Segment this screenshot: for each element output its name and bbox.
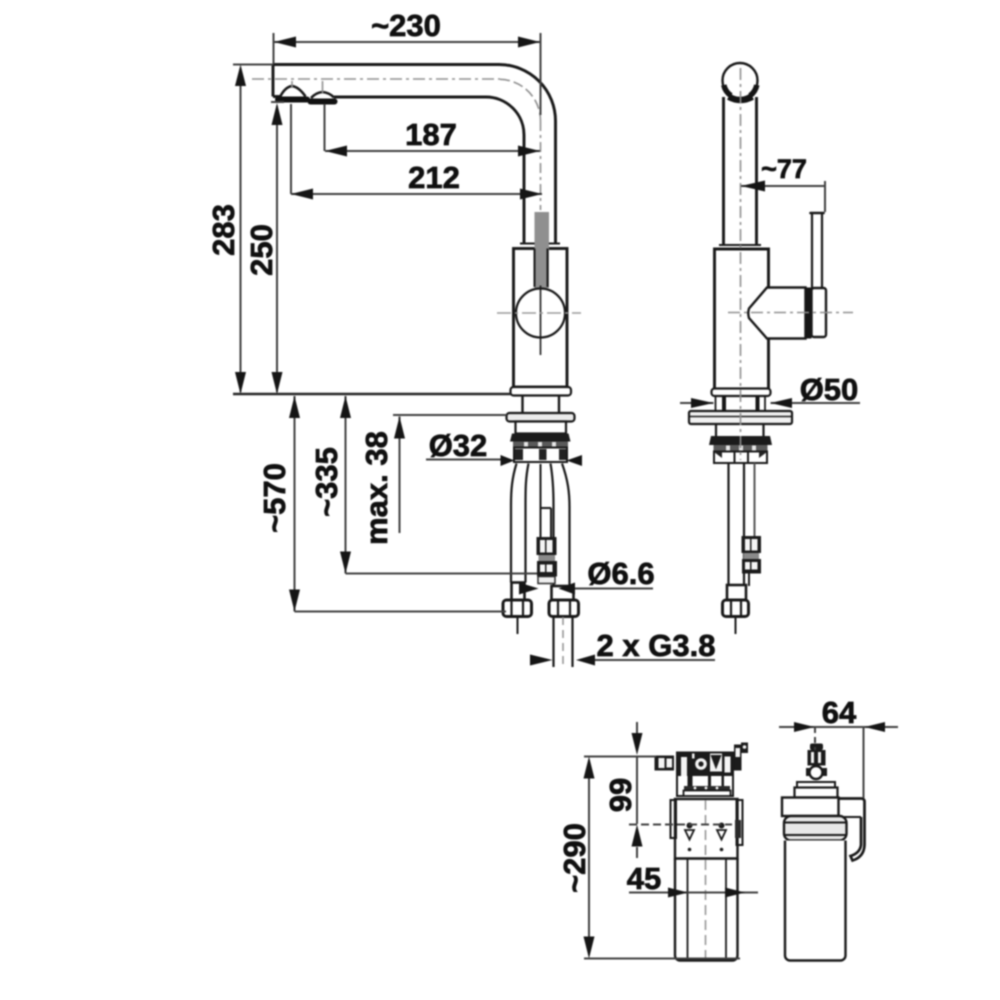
body bbox=[514, 249, 568, 388]
mounting bracket bbox=[839, 799, 865, 861]
aerator stub centerlines bbox=[291, 81, 293, 88]
svg-text:2 x G3.8: 2 x G3.8 bbox=[597, 628, 716, 663]
front hose tail bbox=[735, 617, 737, 635]
valve left bbox=[687, 823, 693, 829]
dark joint band under circle bbox=[729, 97, 753, 100]
dim 64 line bbox=[779, 726, 898, 728]
circle horizontal centerline bbox=[497, 312, 581, 314]
99 arrows bbox=[632, 733, 643, 755]
head speckled band bbox=[684, 786, 730, 791]
head right column window bbox=[725, 757, 731, 773]
svg-text:64: 64 bbox=[822, 695, 857, 730]
shank below plate bbox=[716, 424, 764, 436]
body left tab bbox=[671, 800, 677, 838]
head cell row bbox=[688, 776, 693, 786]
right hose hex nut bbox=[549, 600, 579, 617]
riser tube bbox=[724, 97, 757, 245]
lower hex collar bbox=[514, 448, 567, 463]
cartridge head step bbox=[797, 782, 835, 788]
handle hub bbox=[748, 288, 805, 339]
valve right bbox=[719, 823, 725, 829]
dim 187 line bbox=[325, 150, 540, 152]
tube/body step bbox=[719, 244, 761, 246]
body centerline bbox=[705, 800, 707, 958]
left hose tail bbox=[517, 617, 519, 635]
250 arrows bbox=[272, 103, 283, 125]
dark lower-right crescent bbox=[750, 85, 757, 96]
svg-text:Ø50: Ø50 bbox=[800, 372, 859, 407]
283 arrows bbox=[235, 65, 246, 87]
escutcheon plate bbox=[689, 411, 792, 424]
rear hose G3/8 fitting bbox=[742, 536, 762, 586]
svg-text:~290: ~290 bbox=[557, 823, 592, 893]
body inner lines bbox=[688, 859, 727, 959]
~290 arrows bbox=[584, 757, 595, 779]
cartridge head bbox=[795, 788, 838, 798]
dimension labels (faucet) bbox=[206, 8, 858, 663]
deck baseline bbox=[233, 393, 511, 395]
svg-text:Ø32: Ø32 bbox=[429, 428, 488, 463]
Ø50 arrows bbox=[691, 398, 714, 408]
filter head block bbox=[677, 753, 733, 797]
45 arrows bbox=[668, 888, 688, 898]
front view centerlines bbox=[728, 68, 853, 460]
lever shaft (grey, inside body) bbox=[535, 212, 550, 288]
base flange bbox=[712, 389, 771, 397]
head gauge circle bbox=[692, 754, 695, 759]
spout bend circle bbox=[723, 63, 758, 98]
lower hex collar bbox=[714, 452, 767, 464]
cartridge body bbox=[785, 841, 846, 961]
ball joint circle bbox=[516, 289, 565, 338]
body divider line bbox=[675, 857, 738, 859]
filter body lower bbox=[675, 859, 738, 961]
~335 arrows bbox=[340, 396, 351, 418]
aerator bump 2 bbox=[311, 92, 334, 98]
outlet elbow right bbox=[734, 745, 742, 771]
64 arrows bbox=[794, 722, 815, 732]
cartridge housing lines bbox=[535, 249, 548, 288]
washer plate bbox=[507, 413, 575, 422]
svg-text:250: 250 bbox=[244, 224, 279, 276]
spout outer top line and bend bbox=[273, 65, 556, 243]
handle end cap bbox=[812, 288, 827, 337]
right hose end fitting bbox=[552, 586, 574, 600]
Ø6.6 arrows bbox=[519, 583, 539, 595]
Ø32 arrows bbox=[501, 455, 515, 466]
front hose end fitting bbox=[727, 585, 746, 600]
front hose hex nut bbox=[723, 600, 749, 617]
dim ~570 line bbox=[294, 396, 296, 612]
svg-text:~570: ~570 bbox=[257, 463, 292, 533]
mounting studs bbox=[724, 396, 758, 411]
dim max38 line bbox=[399, 417, 401, 534]
body right tab bbox=[737, 800, 743, 845]
thread band bbox=[714, 445, 768, 452]
handle dark ring bbox=[806, 288, 812, 339]
dark mounting nut bbox=[510, 434, 571, 442]
right supply hose bbox=[562, 464, 570, 587]
svg-text:Ø6.6: Ø6.6 bbox=[587, 556, 654, 591]
left hose end fitting bbox=[512, 583, 525, 601]
filtered-water tube bbox=[541, 464, 552, 537]
212 arrows bbox=[291, 189, 313, 200]
dimension arrows (faucet) bbox=[235, 37, 792, 666]
dim Ø32 line bbox=[426, 459, 501, 461]
dim 99 line bbox=[636, 756, 638, 825]
~77 arrow bbox=[741, 181, 765, 192]
left supply hose bbox=[511, 464, 517, 583]
body bbox=[715, 249, 769, 389]
head funnel V window bbox=[710, 754, 722, 772]
left view centerlines bbox=[252, 79, 541, 210]
max38 arrow bbox=[394, 417, 405, 439]
spout centerline bbox=[252, 78, 500, 80]
dim 212 line bbox=[291, 193, 542, 195]
top valve stem bbox=[808, 750, 826, 766]
dim ~77 line bbox=[741, 185, 825, 187]
svg-text:283: 283 bbox=[206, 204, 241, 256]
svg-text:~230: ~230 bbox=[371, 8, 441, 43]
dim Ø6.6 leader bbox=[574, 588, 653, 590]
shank silhouette bbox=[716, 396, 766, 411]
spout left outlet face bbox=[272, 65, 275, 97]
tube/body step bbox=[520, 243, 560, 245]
neck rings bbox=[784, 816, 847, 841]
circle vertical centerline bbox=[540, 286, 542, 356]
head collar bbox=[684, 791, 731, 797]
svg-text:max. 38: max. 38 bbox=[359, 431, 394, 545]
thread band bbox=[513, 442, 568, 448]
dark lower-left crescent bbox=[724, 85, 731, 96]
~570 arrows bbox=[289, 396, 300, 418]
G3/8 fitting on center tube bbox=[537, 537, 558, 584]
base flange bbox=[511, 387, 572, 396]
dark mounting nut bbox=[709, 436, 772, 445]
filter body upper bbox=[675, 799, 738, 859]
dim ~230 line bbox=[274, 41, 540, 43]
svg-text:187: 187 bbox=[405, 117, 457, 152]
horizontal centerline through handle bbox=[728, 312, 853, 314]
svg-text:45: 45 bbox=[627, 861, 661, 896]
svg-text:212: 212 bbox=[408, 160, 460, 195]
aerator bump 1 bbox=[280, 86, 306, 97]
svg-text:~335: ~335 bbox=[309, 447, 344, 517]
lever rod bbox=[812, 214, 822, 289]
dim ~335 line bbox=[345, 396, 347, 574]
filter dimension arrows bbox=[584, 722, 886, 959]
lever top cap bbox=[811, 212, 824, 215]
left hose hex nut bbox=[503, 600, 532, 617]
vertical centerline bbox=[740, 68, 742, 460]
svg-text:~77: ~77 bbox=[761, 154, 807, 184]
inlet fitting left bbox=[655, 756, 675, 771]
filter dimension labels bbox=[557, 695, 857, 896]
top valve disc bbox=[810, 766, 823, 779]
dim 283 line bbox=[240, 68, 242, 392]
2xG3.8 arrows bbox=[530, 655, 553, 666]
hoses below deck bbox=[727, 463, 729, 585]
head left column window bbox=[681, 757, 687, 776]
187 arrows bbox=[325, 146, 347, 157]
spacer block bbox=[516, 422, 567, 434]
dim 2xG3.8 line bbox=[595, 659, 716, 661]
~230 arrows bbox=[274, 37, 296, 48]
right hose lower tube bbox=[554, 617, 573, 668]
svg-text:99: 99 bbox=[603, 778, 638, 812]
dim 45 line bbox=[629, 892, 758, 894]
top valve cap bbox=[810, 744, 823, 751]
spout bottom line and inner bend bbox=[273, 95, 280, 98]
dim ~290 line bbox=[588, 760, 590, 955]
threaded shank above counter bbox=[523, 396, 560, 414]
dim Ø50 line bbox=[680, 402, 860, 404]
dim 250 line bbox=[276, 106, 278, 392]
cartridge collar bbox=[782, 798, 839, 817]
